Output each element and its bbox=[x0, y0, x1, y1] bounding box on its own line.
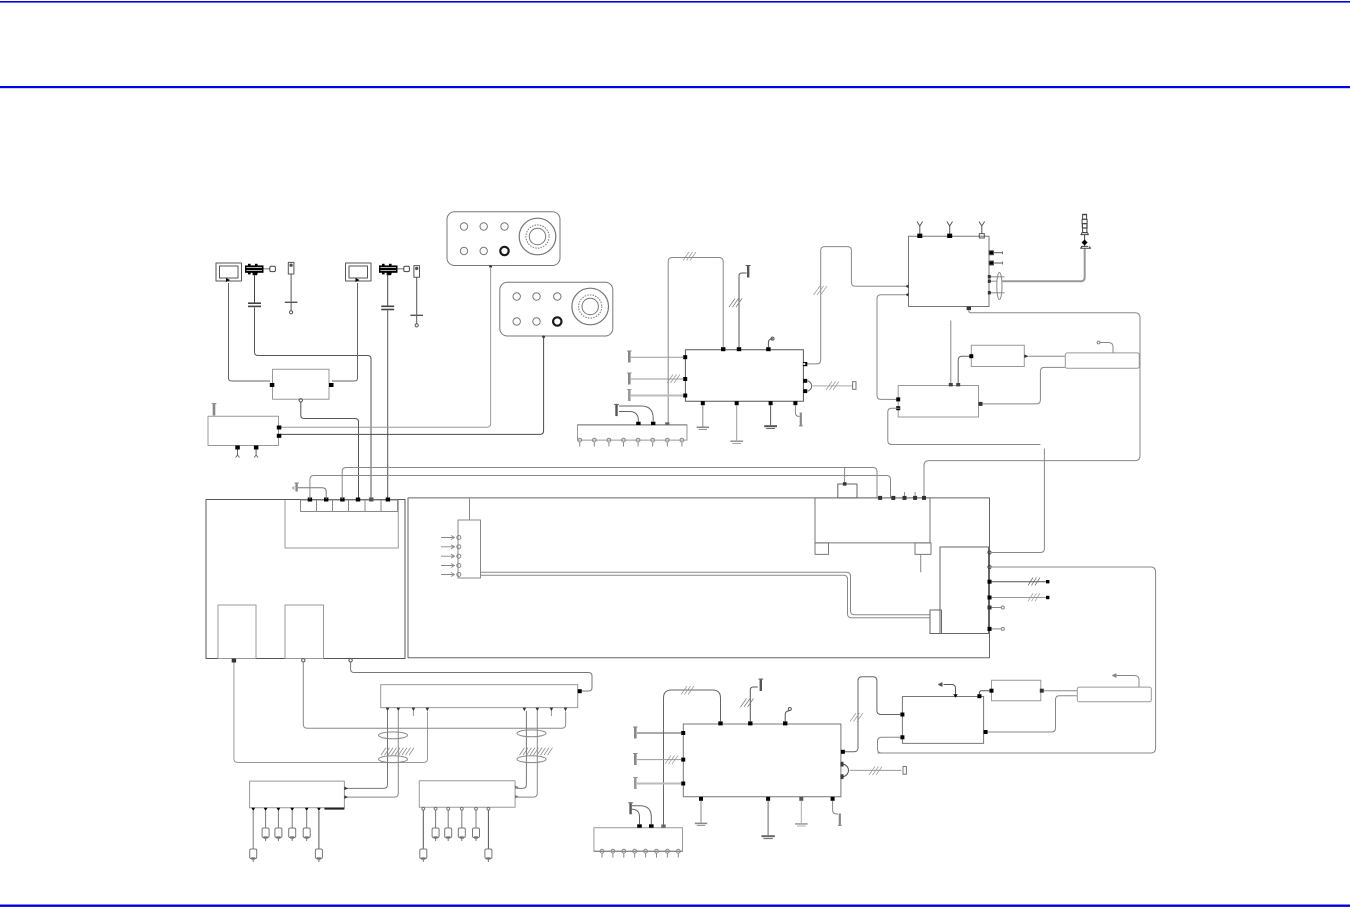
BL top pin 2 bbox=[324, 498, 328, 502]
antenna Y1 bbox=[917, 222, 923, 234]
BL top pin 3 bbox=[340, 498, 344, 502]
W top pin 1 bbox=[878, 496, 882, 500]
TB left pin 1 bbox=[905, 285, 908, 289]
wire bus BL pin1 right bbox=[310, 476, 891, 500]
wire P1 to box K2 bbox=[280, 267, 491, 427]
plug US bbox=[614, 404, 619, 416]
M1 left pin bbox=[969, 354, 973, 358]
wire E left1 to plug bbox=[631, 356, 683, 358]
fuse F1 bbox=[285, 262, 298, 314]
BR right pin bbox=[984, 730, 988, 734]
switch blob SW1 bbox=[245, 264, 264, 275]
pin B right 2 bbox=[515, 795, 519, 799]
E bottom pin 2 bbox=[735, 401, 739, 405]
pad SQ2 bbox=[404, 266, 410, 271]
B bottom pins bbox=[422, 807, 425, 810]
TB left pin 2 bbox=[905, 293, 908, 297]
wire TB pin2 to relay RB bbox=[877, 295, 905, 400]
E bottom pin 4 bbox=[793, 401, 797, 405]
upper connector strip US bbox=[578, 425, 688, 440]
ground BM2 bbox=[761, 801, 774, 839]
WB2 pin 4 bbox=[426, 708, 430, 712]
wire bus BL pin3 right bbox=[342, 468, 877, 500]
IC contact 5 bbox=[441, 573, 461, 577]
E bottom pin 1 bbox=[701, 401, 705, 405]
plug BML1 bbox=[633, 727, 638, 739]
footer rule bbox=[0, 905, 1350, 907]
spark unit box B bbox=[419, 781, 515, 808]
BM right arc pins bbox=[841, 762, 849, 778]
wire RB pin1 up bbox=[950, 321, 952, 384]
header rule bbox=[0, 86, 1350, 88]
RC pin 3 bbox=[988, 580, 992, 584]
wire BR L2 to long run bbox=[878, 737, 901, 753]
A bottom pins bbox=[251, 808, 255, 811]
wire L2b to box B bbox=[517, 788, 537, 797]
M1 right pin bbox=[1024, 354, 1028, 358]
wire BL pin-a down to ignition feed bbox=[234, 663, 428, 763]
hatch on BML2 bbox=[665, 756, 678, 765]
pump module M1 bbox=[971, 345, 1024, 366]
BS top pin 1 bbox=[637, 824, 642, 827]
box A dark base bbox=[324, 808, 344, 810]
ground E3 bbox=[764, 405, 777, 428]
TB connector oval bbox=[988, 273, 1005, 300]
wire RC5 stub bbox=[992, 606, 1005, 609]
wire RC2 long to BM box bbox=[878, 567, 1156, 753]
capacitor C2 bbox=[381, 275, 394, 310]
main harness box BL bbox=[206, 500, 405, 659]
W inner connector IC bbox=[458, 520, 481, 578]
hatch on E pin2 wire bbox=[729, 299, 742, 308]
WB2 pin 3 bbox=[412, 708, 416, 712]
BR left pin 1 bbox=[900, 713, 904, 717]
wire ECU to TB pin1 bbox=[806, 247, 905, 364]
RC sub box bbox=[930, 610, 942, 634]
RC pin 2 bbox=[988, 565, 991, 568]
BL top pin 4 bbox=[356, 498, 360, 502]
plug E4 bbox=[799, 413, 803, 426]
WB2 pin7 stub bbox=[550, 711, 552, 716]
RB top pin 1 bbox=[949, 383, 953, 386]
wire BS2 to plug bbox=[632, 806, 652, 825]
plug BMAR bbox=[903, 767, 906, 775]
W top pin 4 bbox=[913, 492, 917, 500]
WB2 right pin bbox=[578, 689, 582, 693]
switch blob SW2 bbox=[379, 264, 398, 275]
smart key unit TB bbox=[909, 236, 990, 306]
wire IC data pair upper bbox=[481, 572, 931, 615]
plug EL2 bbox=[627, 373, 632, 385]
wire BM arc to plug bbox=[850, 769, 902, 771]
E top pin 1 bbox=[721, 347, 725, 351]
wire P2 to box K2 bbox=[280, 337, 544, 434]
wire BM L3 to plug bbox=[637, 783, 681, 785]
ground E1 bbox=[697, 405, 709, 429]
pin K2 right 2 bbox=[277, 434, 282, 438]
wire BR right to M3 bbox=[988, 696, 1078, 732]
wire RC6 stub bbox=[992, 627, 1005, 630]
hook sensor BR1 bbox=[939, 683, 956, 695]
BL top pin 6 bbox=[386, 498, 390, 502]
wire L1b to box A bbox=[346, 788, 398, 797]
wire US2 to plug bbox=[619, 406, 653, 422]
wire E left2 to plug bbox=[631, 378, 683, 380]
wire E left3 to plug bbox=[631, 395, 683, 397]
E right arc pins bbox=[803, 379, 811, 393]
fuel pump M2 bbox=[1065, 353, 1139, 368]
BM left pin 1 bbox=[681, 731, 685, 735]
wire US1 to plug bbox=[619, 412, 638, 422]
wire BL pin-b to injector rail bbox=[303, 662, 565, 728]
wire L2a to box B bbox=[517, 780, 526, 789]
pin SB top bbox=[843, 482, 847, 485]
US top pin 3 mark bbox=[665, 422, 669, 425]
pin K1 right bbox=[329, 383, 334, 387]
hatch on E pin1 wire bbox=[683, 252, 696, 261]
WB2 pin3 stub bbox=[412, 711, 414, 716]
WB2 pin 7 bbox=[550, 708, 554, 712]
lower connector strip BS bbox=[594, 828, 683, 852]
plug BS bbox=[628, 803, 633, 815]
US top pin 2 bbox=[651, 422, 655, 425]
BM right pin 1 bbox=[841, 750, 845, 754]
wire RC1 to lamp loop bbox=[991, 449, 1044, 553]
BM left pin 3 bbox=[681, 782, 685, 786]
RC pin 4 bbox=[988, 596, 992, 600]
wire RB pin2 to M1 bbox=[958, 356, 970, 383]
wire RB right to M2 rect bbox=[983, 367, 1066, 404]
RC pin 5 bbox=[988, 606, 992, 610]
wire RC4 stub bbox=[992, 593, 1050, 601]
W top pin 5 bbox=[922, 496, 926, 500]
keyless panel P2 bbox=[500, 282, 613, 336]
diode box K2 bbox=[208, 416, 279, 445]
US top pin 1 bbox=[636, 422, 640, 425]
hatch mark on W1 bbox=[814, 286, 828, 295]
relay K1 bbox=[273, 369, 330, 399]
fuse F2 bbox=[410, 266, 423, 327]
top border rule bbox=[0, 1, 1350, 3]
WB2 pin 5 bbox=[523, 708, 527, 712]
capacitor C1 bbox=[248, 275, 261, 307]
ignition coil L1 bbox=[379, 711, 415, 788]
taillight box SB2 bbox=[992, 680, 1041, 701]
hook sensor E pin3 bbox=[768, 339, 773, 348]
RB right pin bbox=[979, 402, 983, 406]
BL top pin 5 bbox=[369, 498, 373, 502]
hook sensor M3 bbox=[1113, 674, 1139, 687]
pin K1 bottom bbox=[299, 399, 302, 402]
TB right pin 1 bbox=[989, 251, 1002, 255]
BR top pin 1 bbox=[953, 694, 957, 698]
wire L1a to box A bbox=[346, 780, 388, 789]
wire C2 to big box pin bbox=[387, 311, 389, 500]
lead K2 bottom 2 bbox=[254, 450, 258, 458]
W right column box RC bbox=[940, 547, 989, 634]
plug on K2 top bbox=[212, 404, 217, 416]
relay module SB above W bbox=[838, 484, 857, 498]
RC pin 1 bbox=[988, 551, 991, 554]
plug E2 bbox=[746, 266, 751, 278]
indicator module S2 bbox=[346, 263, 372, 282]
pin P2 bbox=[542, 335, 545, 338]
pad SQ1 bbox=[270, 266, 276, 271]
hook sensor BM3 bbox=[785, 711, 789, 722]
fuel pump relay RB bbox=[898, 386, 978, 418]
antenna Y2 bbox=[947, 222, 953, 234]
plug BML2 bbox=[633, 754, 638, 766]
wire M1 to M2 bbox=[1029, 355, 1065, 357]
pin K2 bottom 2 bbox=[254, 446, 259, 450]
WB2 pin 1 bbox=[386, 708, 390, 712]
B leads and plugs bbox=[420, 810, 492, 862]
wire C1 to big box pin bbox=[255, 308, 372, 500]
wire K1 to big box pin bbox=[301, 402, 359, 499]
pin B right 1 bbox=[515, 786, 519, 790]
wire S1 to relay K1 bbox=[229, 283, 271, 381]
wire BM2 to plug bbox=[750, 687, 758, 721]
ground BM1 bbox=[695, 801, 707, 826]
wire RB L2 to RC pin1 bbox=[888, 408, 1041, 444]
wire BM L1 to plug bbox=[637, 732, 681, 734]
BS pin circles bbox=[600, 849, 680, 857]
wire BM4 to plug bbox=[833, 801, 838, 814]
BL inner block bbox=[285, 500, 398, 548]
BL bottom pin c bbox=[349, 659, 352, 662]
BL bottom pin b bbox=[302, 659, 305, 662]
BM top pin 3 bbox=[783, 721, 787, 725]
lead K2 bottom 1 bbox=[236, 450, 240, 458]
IC contact 1 bbox=[441, 536, 461, 540]
E left pin 3 bbox=[683, 394, 687, 398]
wire SB2 to M3 bbox=[1044, 690, 1078, 692]
spark unit box A bbox=[250, 781, 345, 808]
BL inner rect 1 bbox=[218, 605, 256, 659]
ECU box E bbox=[685, 350, 803, 402]
rear brake box BR bbox=[902, 697, 983, 744]
wire E pin1 over to strip US bbox=[668, 258, 723, 424]
wire oval to antenna ANT bbox=[1002, 248, 1085, 281]
wire BL pin-c to fuel box bbox=[351, 662, 592, 691]
TB right pin 2 bbox=[989, 261, 1002, 265]
immobilizer antenna ANT bbox=[1081, 214, 1091, 248]
pin P1 bbox=[489, 265, 492, 268]
BL fuse row connector bbox=[301, 500, 398, 512]
wire BR2 to SB2 bbox=[979, 691, 989, 695]
BM bottom pin 1 bbox=[699, 797, 703, 801]
BM bottom pin 4 bbox=[831, 797, 835, 801]
TB bottom pin bbox=[967, 307, 971, 311]
wire BM1 to strip BS bbox=[664, 690, 721, 826]
RB left pin 2 bbox=[896, 406, 900, 410]
plug J3 bbox=[293, 483, 299, 492]
wire S2 to relay K1 right bbox=[332, 283, 358, 381]
A leads and plugs bbox=[250, 811, 323, 862]
BM bottom pin 2 bbox=[766, 797, 770, 801]
IC contact 2 bbox=[441, 545, 461, 549]
WB2 pin 2 bbox=[397, 708, 401, 712]
IC contact 4 bbox=[441, 564, 461, 568]
wire E4 to plug bbox=[795, 405, 799, 416]
IC contact 3 bbox=[441, 554, 461, 558]
ground BM3 bbox=[795, 801, 808, 826]
RB left pin 1 bbox=[896, 397, 900, 401]
WB2 pin 6 bbox=[536, 708, 540, 712]
plug BML3 bbox=[633, 778, 638, 790]
hatch on arc wire bbox=[826, 382, 839, 391]
hatch on BMR1 wire bbox=[850, 713, 863, 722]
wire BM R1 over to BR box bbox=[845, 677, 900, 752]
pin A right 2 bbox=[344, 795, 348, 799]
W top pin 2 bbox=[891, 496, 895, 500]
wire RC3 stub bbox=[992, 578, 1050, 586]
E top pin 3 bbox=[766, 347, 770, 351]
wire TB bottom loop to W top pin5 bbox=[924, 310, 1140, 496]
BL inner rect 2 bbox=[285, 605, 324, 659]
wire IC data pair lower bbox=[481, 575, 931, 618]
W top pin 3 bbox=[903, 492, 907, 500]
US pin circles bbox=[578, 438, 684, 446]
wire SW1 to pad bbox=[264, 268, 270, 270]
wire E arc to plug bbox=[812, 385, 852, 387]
SB2 left pin bbox=[990, 689, 994, 693]
plug EL3 bbox=[627, 390, 632, 402]
hook sensor M2 bbox=[1097, 341, 1113, 353]
pin A right 1 bbox=[344, 787, 348, 791]
RB top pin 2 bbox=[956, 383, 960, 386]
indicator module S1 bbox=[216, 263, 242, 282]
wire SB to bus bbox=[844, 468, 846, 482]
BM top pin 2 bbox=[748, 721, 752, 725]
TB top pin 3 bbox=[979, 234, 984, 238]
TB top pin 2 bbox=[947, 234, 952, 238]
antenna Y3 bbox=[979, 222, 985, 234]
hatch on BM1 wire bbox=[681, 686, 694, 695]
wire IC top stub bbox=[469, 499, 471, 521]
ground E2 bbox=[730, 405, 743, 443]
WB2 pin 8 bbox=[564, 708, 568, 712]
ignition coil L2 bbox=[517, 711, 553, 788]
hatch on BM arc wire bbox=[869, 767, 882, 776]
wire J3 to BL pin2 bbox=[298, 488, 326, 499]
wire SW2 to pad bbox=[398, 268, 404, 270]
plug BM2 bbox=[759, 679, 764, 691]
BL top pin 1 bbox=[308, 498, 312, 502]
wire TR right square down bbox=[920, 554, 922, 572]
wire BM L2 to plug bbox=[637, 759, 681, 761]
plug BM4 bbox=[838, 814, 842, 826]
TR sub square left bbox=[815, 543, 829, 555]
plug EAR bbox=[853, 382, 856, 390]
BS top pin 3 mark bbox=[661, 825, 665, 828]
keyless panel P1 bbox=[447, 212, 560, 266]
BR top pin 2 bbox=[977, 694, 981, 698]
hatch on EL2 bbox=[667, 375, 680, 384]
RC pin 6 bbox=[988, 627, 992, 631]
E left pin 2 bbox=[683, 377, 687, 381]
BR left pin 2 bbox=[900, 735, 904, 739]
engine control box W bbox=[408, 498, 990, 658]
W inner top-right block TR bbox=[815, 498, 930, 543]
TB top pin 1 bbox=[917, 234, 922, 238]
E top pin 2 bbox=[737, 347, 741, 351]
SB2 right pin bbox=[1040, 689, 1044, 693]
license lamp M3 bbox=[1077, 687, 1151, 702]
ignition feed box WB2 bbox=[381, 685, 578, 708]
E bottom pin 3 bbox=[769, 401, 773, 405]
E right pin loop bbox=[803, 362, 807, 366]
pin K2 right 1 bbox=[277, 426, 282, 430]
E left pin 1 bbox=[683, 355, 687, 359]
BL bottom pin a bbox=[232, 659, 236, 663]
pin K1 left bbox=[270, 383, 275, 387]
BM top pin 1 bbox=[718, 721, 722, 725]
ABS module BM bbox=[683, 724, 841, 797]
TR sub square right bbox=[915, 543, 931, 555]
BM bottom pin 3 bbox=[799, 797, 803, 801]
BM left pin 2 bbox=[681, 758, 685, 762]
pin K2 bottom 1 bbox=[235, 446, 240, 450]
hatch on BM2 wire bbox=[741, 699, 754, 708]
plug EL1 bbox=[627, 351, 632, 363]
BS top pin 2 bbox=[649, 824, 654, 827]
wire BS1 to plug bbox=[632, 809, 640, 824]
wire E pin2 to plug bbox=[739, 273, 747, 347]
